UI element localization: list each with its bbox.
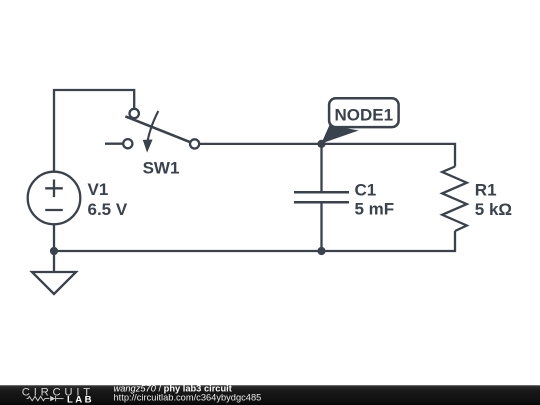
wire SW1 right terminal to NODE1 (y=144) xyxy=(199,143,322,145)
svg-text:LAB: LAB xyxy=(67,395,94,405)
node junction dot NODE1 top xyxy=(317,140,325,148)
V1 minus sign xyxy=(45,209,63,211)
svg-text:5 kΩ: 5 kΩ xyxy=(475,200,512,219)
R1 zigzag body xyxy=(442,167,467,232)
svg-text:V1: V1 xyxy=(88,180,109,199)
ground symbol xyxy=(32,272,76,294)
V1 plus sign xyxy=(45,180,63,198)
svg-text:6.5 V: 6.5 V xyxy=(88,200,128,219)
svg-text:5 mF: 5 mF xyxy=(355,200,395,219)
voltage source V1 xyxy=(28,172,81,225)
wire bottom rail from R1 corner to V1 node xyxy=(54,231,455,251)
wire V1 top / top horizontal / drop to SW1 top terminal xyxy=(54,90,134,172)
SW1 left terminal circle xyxy=(123,139,132,148)
NODE1 callout tail xyxy=(321,125,358,144)
C1 bottom plate xyxy=(294,201,349,204)
svg-text:C1: C1 xyxy=(355,181,377,200)
node junction dot bottom of C1 xyxy=(317,247,325,255)
svg-text:NODE1: NODE1 xyxy=(335,106,394,125)
C1 top plate xyxy=(294,191,349,194)
SW1 arrowhead xyxy=(143,140,153,153)
svg-text:http://circuitlab.com/c364ybyd: http://circuitlab.com/c364ybydgc485 xyxy=(114,393,262,403)
NODE1 callout box xyxy=(329,98,399,127)
wire NODE1 to R1 top corner and down to R1 xyxy=(322,144,456,167)
SW1 left terminal stub wire xyxy=(105,143,123,145)
resistor R1 xyxy=(442,167,467,232)
C1 top lead wire xyxy=(320,144,322,192)
svg-text:R1: R1 xyxy=(475,181,497,200)
switch SW1 xyxy=(105,109,199,153)
svg-text:SW1: SW1 xyxy=(143,159,180,178)
SW1 actuation arrow curve xyxy=(148,111,159,141)
SW1 top terminal circle xyxy=(130,109,139,118)
CircuitLab logo resistor+diode glyph xyxy=(27,396,64,401)
wire V1 bottom lead xyxy=(53,224,55,251)
C1 bottom lead wire xyxy=(320,202,322,251)
SW1 right terminal circle xyxy=(190,139,199,148)
node junction dot at V1/ground xyxy=(50,247,58,255)
footer bar xyxy=(0,385,540,405)
V1 circle body xyxy=(28,172,81,225)
SW1 blade xyxy=(125,116,190,142)
capacitor C1 xyxy=(294,144,349,251)
wire ground lead xyxy=(53,251,55,272)
